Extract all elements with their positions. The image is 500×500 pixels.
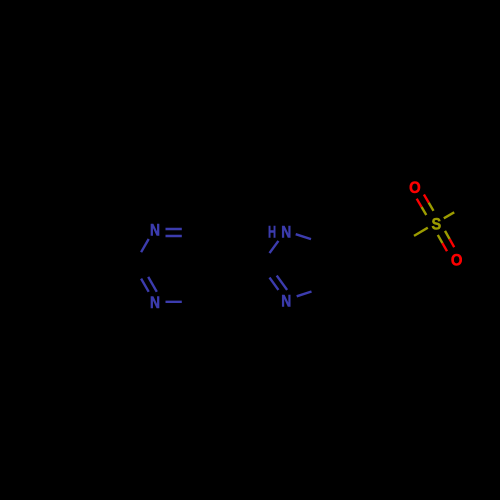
svg-text:N: N (150, 294, 160, 312)
svg-text:N: N (281, 292, 291, 310)
svg-text:S: S (431, 215, 441, 233)
svg-text:N: N (150, 221, 160, 239)
svg-text:N: N (281, 223, 291, 241)
svg-text:O: O (409, 179, 421, 197)
svg-text:O: O (451, 252, 463, 270)
svg-text:H: H (268, 222, 276, 241)
